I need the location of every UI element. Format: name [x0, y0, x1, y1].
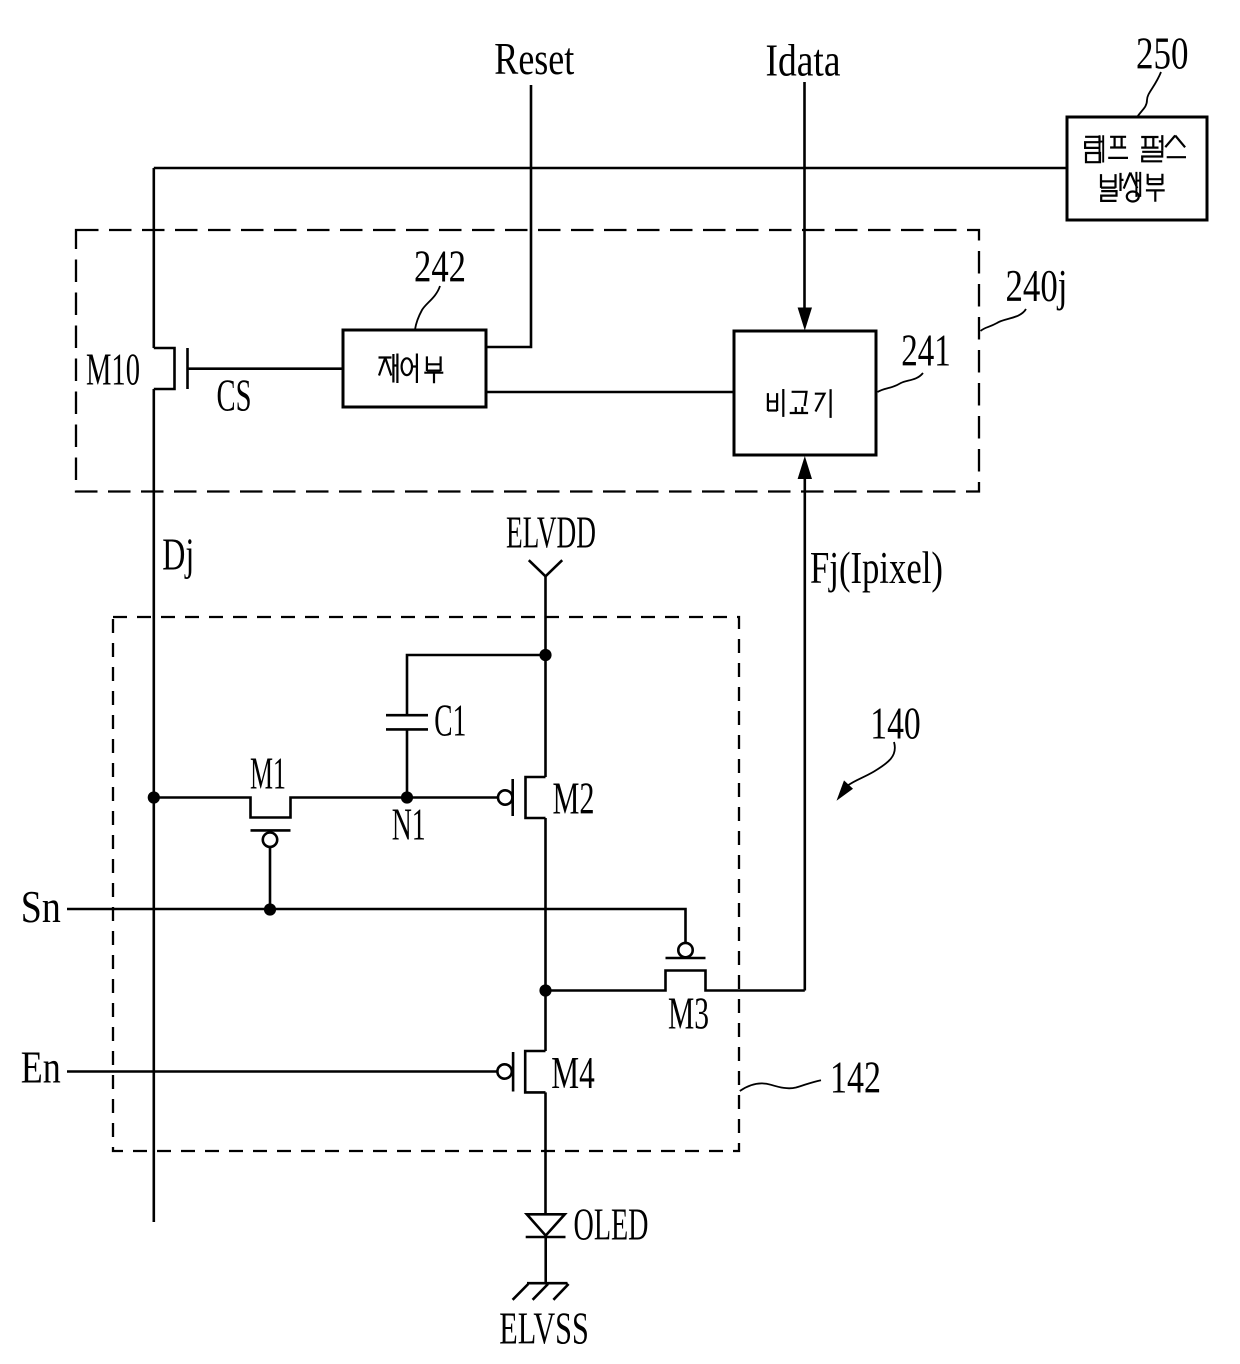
transistor M1 gate bar: [251, 829, 291, 832]
block 241 comparator box: [734, 331, 876, 455]
arrowhead 140: [837, 780, 854, 800]
label OLED: [574, 1199, 649, 1250]
svg-text:240j: 240j: [1006, 260, 1068, 311]
capacitor C1 plates: [386, 715, 428, 729]
wire cap to N1: [406, 731, 409, 798]
label M3: [668, 988, 709, 1039]
transistor M3 gate bar: [666, 957, 706, 960]
label M4: [551, 1047, 595, 1098]
svg-text:C1: C1: [434, 695, 466, 746]
svg-text:N1: N1: [392, 799, 426, 850]
wire Sn horizontal: [67, 909, 686, 943]
junction dot Sn-M1 gate: [264, 903, 276, 915]
svg-text:ELVDD: ELVDD: [506, 507, 596, 558]
block 242 control unit box: [343, 330, 486, 407]
wire top horizontal from Dj column to ramp pulse generator: [154, 167, 1067, 170]
svg-text:Idata: Idata: [766, 35, 841, 86]
label M2: [553, 773, 595, 824]
svg-text:Fj(Ipixel): Fj(Ipixel): [810, 542, 943, 593]
svg-text:M1: M1: [250, 748, 286, 799]
label 241: [901, 325, 951, 376]
dashed boundary box 142 (pixel): [113, 617, 739, 1151]
svg-text:OLED: OLED: [574, 1199, 649, 1250]
svg-text:M10: M10: [86, 344, 140, 395]
power ELVDD label: [506, 507, 596, 558]
power ELVDD symbol: [529, 560, 562, 576]
text 제어부 (control unit): [379, 354, 444, 384]
wire N1 to M2 gate bubble: [407, 796, 498, 799]
leader arrow 140 curve: [847, 742, 895, 786]
diode OLED triangle: [527, 1214, 565, 1235]
wire Reset vertical into control unit: [486, 85, 531, 347]
transistor M3 gate bubble: [678, 943, 692, 957]
ground ELVSS symbol: [513, 1283, 569, 1300]
junction dot N1: [401, 791, 413, 803]
wire OLED to ground: [544, 1237, 547, 1283]
transistor M3 channel with wires: [546, 971, 805, 991]
svg-text:Dj: Dj: [162, 529, 194, 580]
node Fj(Ipixel) label: [810, 542, 943, 593]
transistor M4 channel: [525, 1051, 545, 1092]
transistor M10 gate bar: [186, 348, 189, 389]
transistor M4 gate bar: [512, 1052, 515, 1092]
leader 240j: [981, 309, 1027, 331]
node Reset label: [494, 33, 574, 84]
junction dot M2-M3-M4 node: [539, 984, 551, 996]
label 250: [1136, 28, 1189, 79]
transistor M1 gate bubble: [263, 833, 277, 847]
arrowhead Idata into comparator: [798, 308, 812, 331]
wire Dj lower segment: [153, 389, 156, 1222]
wire ELVDD down to node: [544, 576, 547, 777]
transistor M2 gate bubble: [498, 790, 512, 804]
wire En horizontal: [67, 1070, 497, 1073]
node Idata label: [766, 35, 841, 86]
text 램프 펄스 (ramp pulse) line 1 in box 250: [1085, 135, 1186, 162]
wire M4 drain down to OLED: [544, 1092, 547, 1215]
wire Dj upper segment: [153, 168, 156, 348]
svg-text:Reset: Reset: [494, 33, 574, 84]
node Sn label: [21, 881, 61, 932]
label M10: [86, 344, 140, 395]
label 142: [830, 1052, 881, 1103]
svg-text:250: 250: [1136, 28, 1189, 79]
wire Dj to M1 and M1 to N1 with channel: [154, 798, 407, 818]
text 비교기 (comparator): [768, 389, 831, 418]
svg-text:Sn: Sn: [21, 881, 61, 932]
wire M1 gate to Sn: [269, 847, 272, 910]
svg-text:M3: M3: [668, 988, 709, 1039]
wire M10 gate to control unit (CS): [188, 367, 344, 370]
svg-text:ELVSS: ELVSS: [499, 1303, 589, 1354]
label 140: [870, 698, 921, 749]
svg-text:M2: M2: [553, 773, 595, 824]
leader 242: [415, 286, 440, 330]
svg-text:241: 241: [901, 325, 951, 376]
transistor M10 channel: [154, 348, 175, 389]
dashed boundary box 240j: [76, 230, 979, 492]
leader 142 wavy: [740, 1080, 821, 1091]
wire M2 drain down: [544, 818, 547, 1051]
block 250 ramp pulse generator box: [1067, 117, 1207, 220]
label 240j: [1006, 260, 1068, 311]
text 발생부 (generator) line 2 in box 250: [1101, 172, 1165, 202]
wire Fj vertical: [803, 478, 806, 991]
label 242: [414, 241, 466, 292]
svg-text:140: 140: [870, 698, 921, 749]
node Dj label: [162, 529, 194, 580]
node CS label: [217, 370, 252, 421]
wire Idata vertical: [803, 82, 806, 309]
node En label: [21, 1041, 61, 1092]
wire cap branch horizontal: [407, 655, 546, 714]
arrowhead Fj into comparator bottom: [798, 456, 812, 479]
leader 241: [878, 373, 924, 392]
power ELVSS label: [499, 1303, 589, 1354]
junction dot Dj-M1: [148, 791, 160, 803]
node N1 label: [392, 799, 426, 850]
transistor M2 channel: [526, 777, 546, 818]
label C1: [434, 695, 466, 746]
svg-text:CS: CS: [217, 370, 252, 421]
transistor M2 gate bar: [511, 779, 514, 816]
svg-text:En: En: [21, 1041, 61, 1092]
junction dot ELVDD-cap node: [539, 649, 551, 661]
svg-text:M4: M4: [551, 1047, 595, 1098]
diode OLED cathode bar: [526, 1236, 566, 1239]
svg-text:242: 242: [414, 241, 466, 292]
label M1: [250, 748, 286, 799]
transistor M4 gate bubble: [497, 1064, 511, 1078]
svg-text:142: 142: [830, 1052, 881, 1103]
wire control unit to comparator: [486, 391, 734, 394]
leader 250: [1138, 72, 1162, 117]
